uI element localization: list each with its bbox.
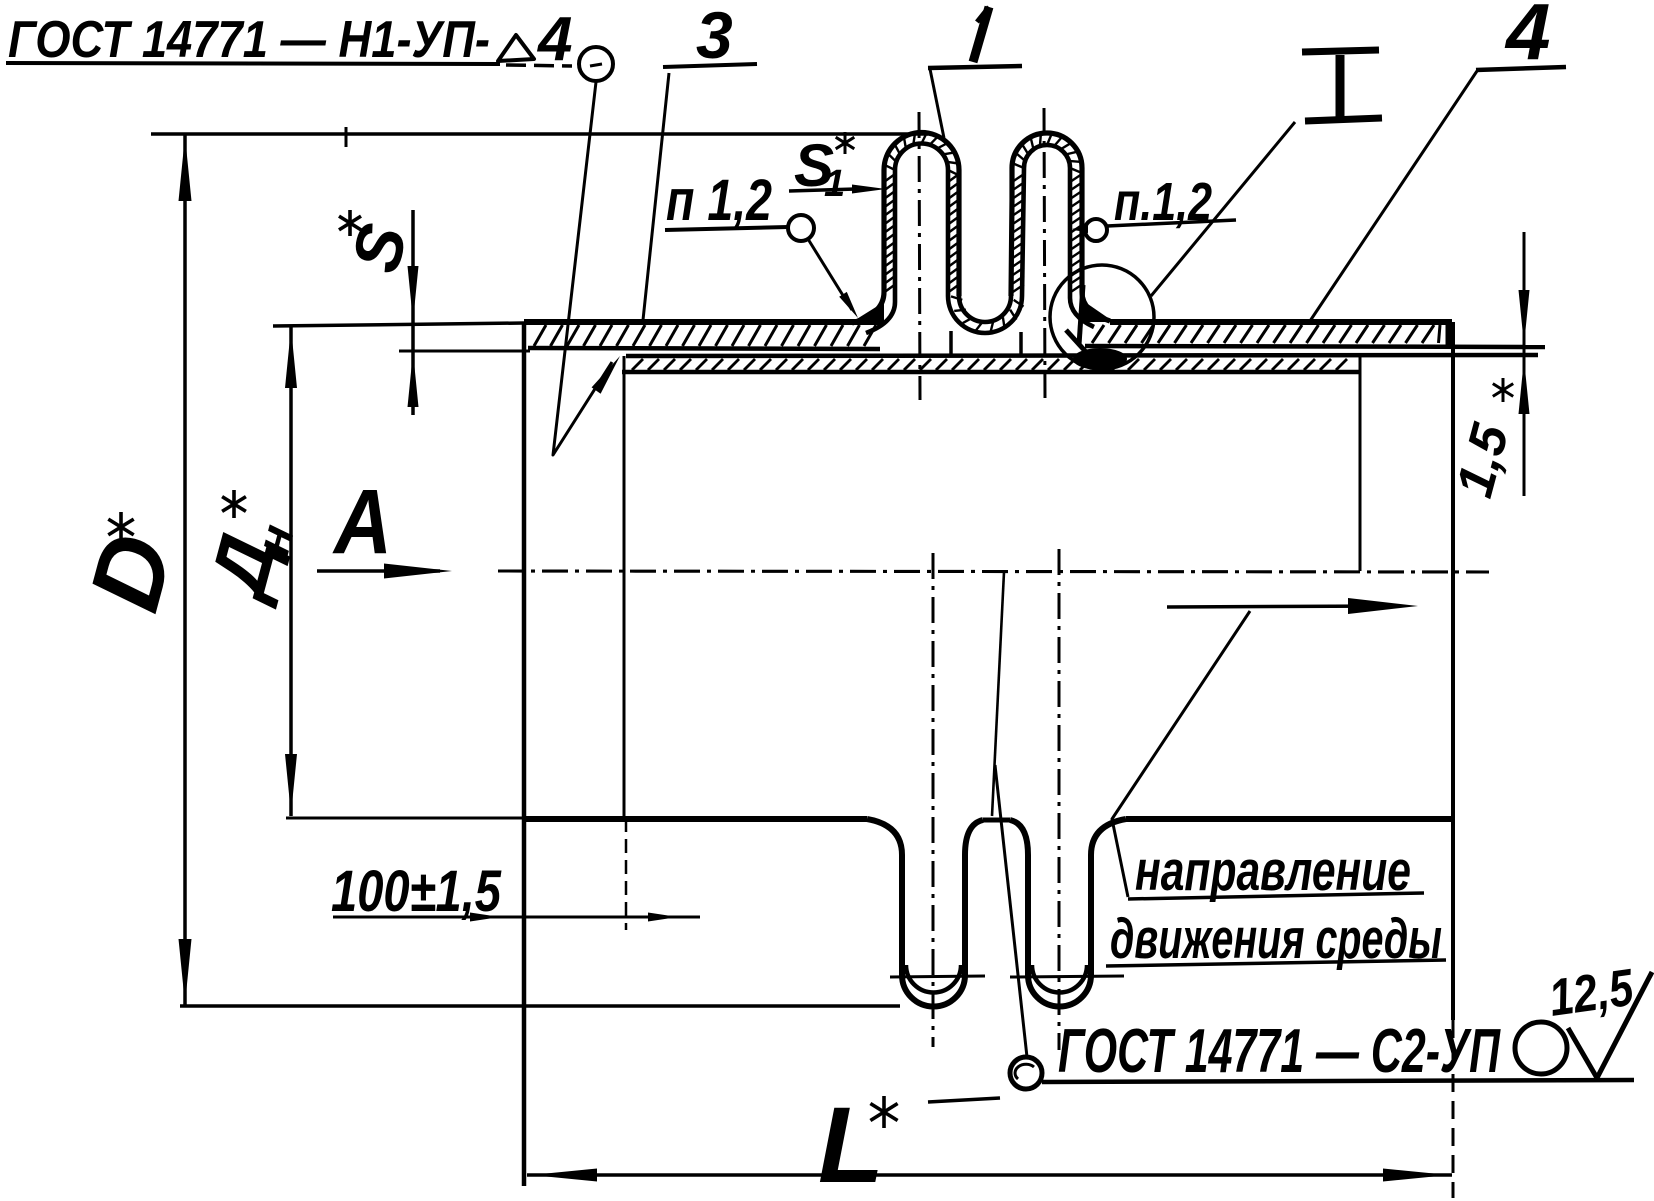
bottom weld circle	[1010, 1057, 1042, 1089]
dim 1,5* text	[1446, 378, 1521, 503]
inner sleeve bottom line	[622, 370, 1361, 375]
dim S1 text	[794, 132, 854, 205]
weld nugget at detail I	[1066, 285, 1127, 370]
dim S* lower extension	[399, 350, 530, 353]
dim 100±1,5 line	[333, 913, 700, 922]
outer pipe hatch left	[534, 325, 876, 346]
bellows right foot weld	[1082, 300, 1114, 322]
detail label I	[1302, 50, 1382, 121]
flow note text line 1	[1128, 839, 1424, 903]
dim 1,5* vertical	[1519, 232, 1530, 496]
outer pipe right end cap	[1446, 322, 1453, 348]
outer pipe top line left	[524, 319, 884, 325]
p 1,2 left circle	[788, 215, 814, 241]
flow note text line 2	[1106, 907, 1446, 971]
weld note GOST 14771 - N1-UP text	[8, 5, 572, 74]
pipe bottom line left	[524, 816, 867, 822]
outer pipe bottom line left	[528, 348, 880, 349]
bellows convolution 2 outer profile	[1011, 133, 1110, 321]
bellows left foot weld	[852, 302, 884, 322]
svg-text:п 1,2: п 1,2	[666, 168, 772, 233]
view label A	[332, 471, 392, 573]
outer pipe top line right	[1110, 319, 1452, 325]
detail I leader	[1151, 122, 1295, 296]
view A arrow	[317, 564, 452, 579]
bellows wall hatching	[884, 133, 1082, 333]
inner sleeve left edge extension	[625, 818, 628, 930]
bellows convolution 2 inner profile	[1022, 145, 1094, 327]
bellows convolution 1 outer profile	[852, 133, 959, 324]
dim L* stray dash	[928, 1098, 1000, 1102]
part label 1	[928, 7, 1022, 68]
dim D* text	[68, 512, 195, 622]
weld-all-around circle symbol	[1515, 1022, 1567, 1074]
outer pipe bottom line right	[1085, 346, 1545, 347]
bottom convolution ticks	[890, 976, 1124, 977]
dim Dn* bottom extension line	[286, 817, 524, 820]
part label 3	[663, 0, 757, 72]
bellows convolution 1 inner profile	[866, 144, 948, 334]
dim S* text	[337, 210, 422, 280]
dim S* vertical line	[408, 210, 419, 415]
svg-text:А: А	[332, 471, 392, 573]
inner sleeve top line	[626, 355, 1538, 356]
pipe axis centerline	[498, 571, 1489, 572]
svg-text:ГОСТ 14771 — С2-УП: ГОСТ 14771 — С2-УП	[1058, 1017, 1501, 1086]
svg-text:1: 1	[824, 163, 845, 205]
surface finish mark	[1546, 959, 1652, 1078]
p.1,2 right circle	[1085, 219, 1107, 241]
pipe left end edge	[522, 322, 527, 1186]
weld leader circle	[579, 47, 613, 81]
weld note GOST 14771 - S2-UP	[1058, 1017, 1501, 1086]
label 3 leader	[643, 73, 669, 320]
dim D* bottom extension line	[180, 1004, 900, 1008]
svg-text:3: 3	[696, 0, 733, 72]
dim 100±1,5 text	[331, 859, 502, 924]
weld note underline	[6, 63, 572, 66]
bottom convolution right centerline	[1058, 549, 1061, 1050]
dim L* line	[527, 1169, 1452, 1182]
svg-text:4: 4	[536, 5, 572, 74]
inner sleeve left edge	[623, 356, 626, 818]
label 4 leader	[1310, 71, 1477, 321]
bottom convolution left U	[867, 819, 983, 1007]
p.1,2 right arrow	[1072, 225, 1088, 233]
detail view circle I	[1050, 265, 1154, 369]
bottom weld leader upper	[992, 572, 1004, 816]
outer pipe hatch right	[1092, 325, 1440, 343]
svg-text:ГОСТ 14771 — Н1-УП-: ГОСТ 14771 — Н1-УП-	[8, 11, 490, 69]
bellows trough legs	[951, 331, 1021, 356]
pipe bottom line right	[1126, 816, 1452, 822]
svg-text:L: L	[818, 1084, 884, 1201]
bottom convolution left centerline	[932, 553, 935, 1047]
label 1 leader	[930, 69, 944, 138]
inner sleeve hatch	[632, 359, 1347, 370]
dim Dn* top extension line	[273, 323, 524, 326]
convolution 1 centerline	[919, 112, 920, 400]
bellows trough outer curve	[948, 296, 1022, 333]
p 1,2 left leader	[808, 239, 858, 318]
note p 1,2 left	[665, 168, 788, 233]
inner sleeve right edge	[1359, 356, 1362, 571]
note p.1,2 right	[1107, 172, 1236, 232]
weld note underline bottom	[1042, 1080, 1634, 1082]
flow direction arrow	[1167, 598, 1418, 614]
bellows trough inner curve	[959, 296, 1011, 322]
svg-text:4: 4	[1504, 0, 1551, 76]
dim D* vertical line	[179, 134, 192, 1006]
dim Dn* vertical line	[285, 326, 297, 816]
weld leader line to sleeve joint	[553, 82, 620, 455]
bottom convolution right U	[1010, 819, 1126, 1007]
dim D* top extension line	[151, 127, 928, 147]
part label 4	[1476, 0, 1566, 76]
bottom weld leader lower	[995, 765, 1027, 1057]
dim Dn* text	[191, 490, 305, 610]
casing right edge and L extension	[1451, 322, 1455, 1198]
dim S1 underline arrow	[789, 185, 886, 194]
svg-text:12,5: 12,5	[1546, 959, 1638, 1028]
dim L* text	[818, 1084, 898, 1201]
bottom mound between convolutions	[983, 818, 1010, 823]
flow note leader	[1112, 611, 1250, 897]
convolution 2 centerline	[1044, 108, 1045, 400]
